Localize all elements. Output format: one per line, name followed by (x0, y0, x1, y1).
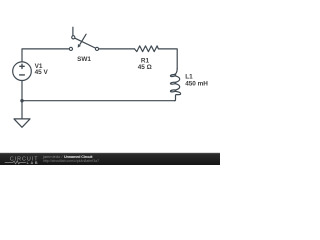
junction node at V1 bottom (20, 99, 23, 102)
CircuitLab logo wire line with resistor mark (5, 161, 26, 164)
svg-text:450 mH: 450 mH (185, 80, 208, 87)
inductor L1 arc 1-2 (176, 76, 180, 82)
inductor L1 loop 1 (170, 74, 176, 77)
wire top-left: V1 top to switch (22, 49, 69, 62)
resistor R1 (135, 46, 159, 52)
switch SW1 top stub (72, 27, 74, 35)
svg-text:LAB: LAB (27, 161, 38, 165)
inductor L1 coil top lead curve (174, 69, 177, 75)
wire switch to resistor (99, 48, 135, 50)
switch SW1 arrowhead (78, 44, 81, 48)
inductor L1 bottom lead hook and jog (175, 91, 181, 100)
voltage source V1 (13, 62, 32, 81)
wire resistor to inductor (158, 49, 177, 69)
inductor L1 loop 2 (170, 82, 176, 85)
wire V1 bottom to ground node (21, 81, 23, 119)
switch SW1 right terminal circle (95, 47, 98, 50)
V1 plus sign (20, 64, 24, 68)
svg-text:http://circuitlab.com/c/pk4n8a: http://circuitlab.com/c/pk4n8afmf3a7 (43, 159, 99, 163)
svg-text:45 Ω: 45 Ω (138, 64, 152, 71)
switch SW1 lever (75, 38, 95, 48)
wire bottom return (22, 100, 175, 102)
svg-text:SW1: SW1 (77, 56, 91, 63)
inductor L1 arc 2-3 (176, 84, 180, 90)
ground (14, 119, 30, 127)
switch SW1 upper pivot circle (72, 36, 75, 39)
svg-text:L1: L1 (185, 73, 193, 80)
switch SW1 action arrow (80, 34, 86, 44)
V1 minus sign (20, 74, 25, 76)
switch SW1 left terminal circle (69, 47, 72, 50)
svg-text:45 V: 45 V (35, 69, 49, 76)
inductor L1 loop 3 (170, 90, 176, 93)
